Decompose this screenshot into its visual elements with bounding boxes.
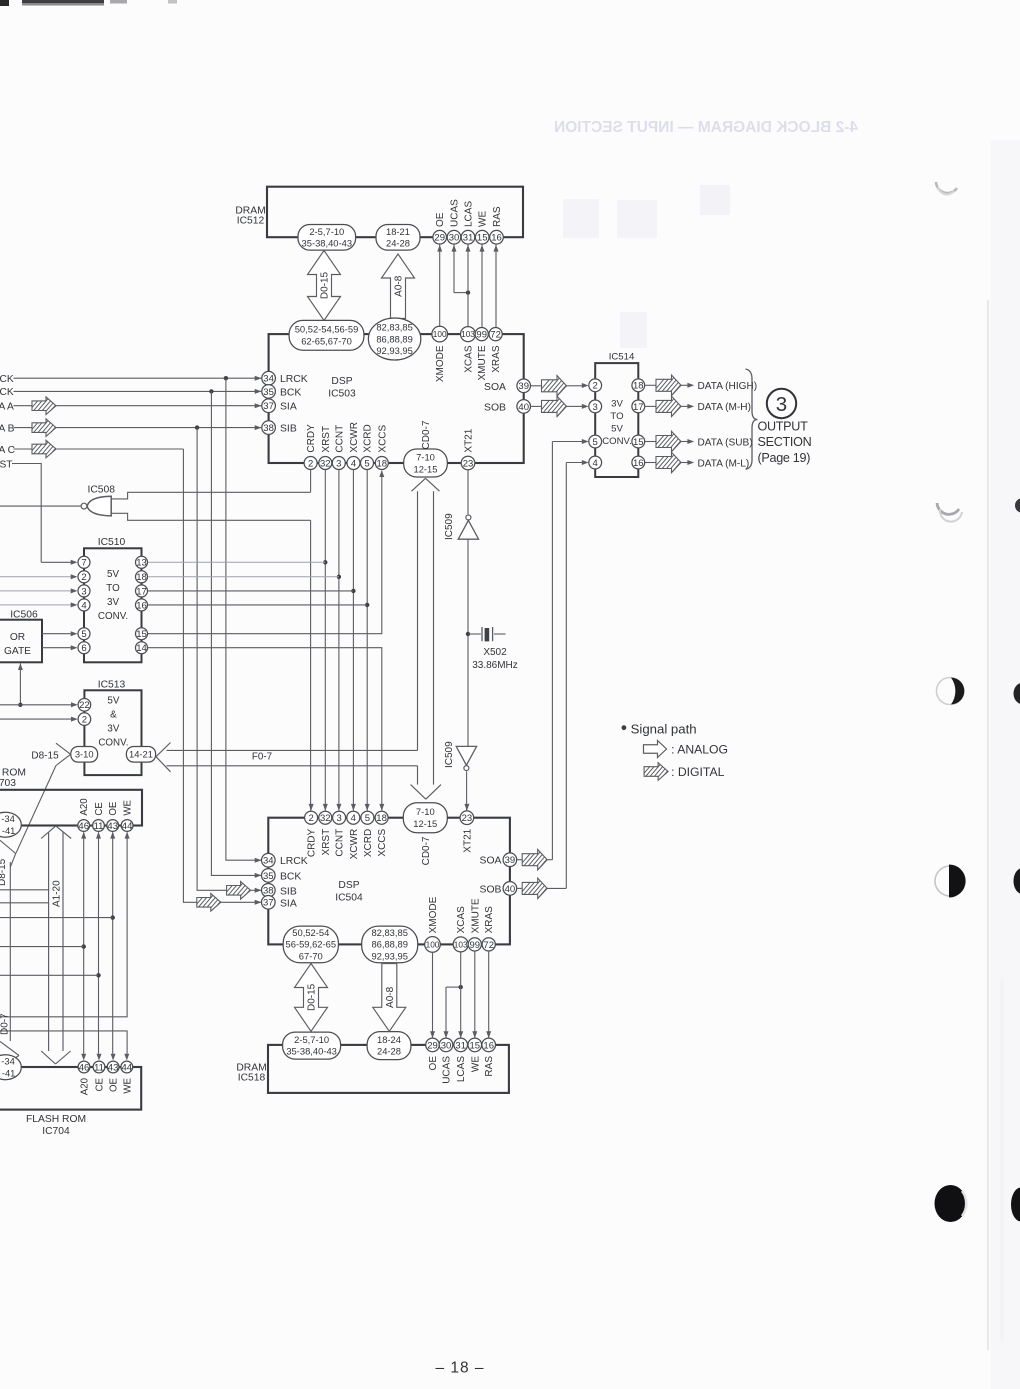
IC503 pin 23 XT21 bbox=[461, 428, 475, 470]
IC504 pin 40 SOB bbox=[480, 882, 517, 896]
svg-text:IC509: IC509 bbox=[444, 741, 455, 768]
svg-text:-34: -34 bbox=[1, 813, 15, 824]
converter IC510 bbox=[84, 537, 142, 662]
svg-text:DATA (M-L): DATA (M-L) bbox=[698, 458, 750, 469]
svg-text:OR: OR bbox=[10, 632, 25, 643]
svg-text:IC510: IC510 bbox=[98, 537, 126, 548]
IC503 pin 72 XRAS bbox=[489, 328, 502, 373]
svg-text:43: 43 bbox=[108, 1062, 119, 1073]
IC513 pins 3-10 bbox=[71, 747, 98, 763]
IC503 pin 34 LRCK bbox=[262, 371, 308, 385]
svg-text:17: 17 bbox=[633, 402, 644, 413]
FLASH ROM IC704 bbox=[0, 1067, 141, 1137]
svg-text:7-10: 7-10 bbox=[416, 806, 435, 817]
svg-text:SIA: SIA bbox=[280, 402, 297, 413]
binder hole 3 bbox=[937, 678, 965, 705]
wire DATA B bbox=[14, 419, 262, 437]
svg-text:IC513: IC513 bbox=[98, 680, 126, 691]
bus A0-8 arrow down bbox=[373, 964, 406, 1032]
svg-text:XT21: XT21 bbox=[462, 828, 473, 852]
IC510 pin 5 bbox=[78, 628, 90, 640]
IC503 pin 4 XCWR bbox=[347, 422, 360, 469]
svg-text:XCAS: XCAS bbox=[464, 345, 475, 373]
svg-text:(Page 19): (Page 19) bbox=[758, 451, 811, 465]
svg-text:A0-8: A0-8 bbox=[385, 986, 396, 1008]
svg-text:SIA: SIA bbox=[280, 898, 297, 909]
svg-text:IC509: IC509 bbox=[444, 513, 455, 540]
svg-text:14: 14 bbox=[136, 643, 147, 654]
svg-text:24-28: 24-28 bbox=[377, 1046, 401, 1057]
wire CRDY to IC504 bbox=[309, 520, 314, 810]
bus D8-15 vertical bbox=[0, 858, 10, 1041]
wire IC510 pin17 to XCWR bbox=[148, 590, 353, 592]
wire CRDY IC503 stub bbox=[310, 470, 312, 493]
converter IC513 bbox=[84, 680, 141, 776]
IC503 pins 7-10 12-15 CD0-7 bbox=[404, 420, 448, 477]
IC504 pins 7-10 12-15 CD0-7 bbox=[403, 803, 447, 866]
svg-text:3: 3 bbox=[336, 813, 341, 824]
wire IC510 pin18 to CCNT bbox=[148, 576, 339, 578]
wire OE 29-XMODE 100 bbox=[437, 244, 442, 326]
wire IC506 out to IC510 pin6 bbox=[42, 645, 78, 650]
svg-text:XCCS: XCCS bbox=[377, 828, 388, 856]
svg-text:3V: 3V bbox=[107, 597, 119, 608]
svg-text:D0-15: D0-15 bbox=[320, 271, 331, 299]
svg-text:100: 100 bbox=[426, 939, 440, 949]
IC504 pin 3 CCNT bbox=[333, 811, 346, 856]
IC503 pin 100 XMODE bbox=[432, 326, 448, 382]
svg-text:34: 34 bbox=[263, 374, 274, 385]
ghost mirrored header text bbox=[554, 119, 858, 136]
IC504 pin 99 XMUTE bbox=[468, 898, 481, 951]
svg-text:16: 16 bbox=[633, 458, 644, 469]
wire IC510 pin13 to XRST bbox=[148, 561, 325, 563]
svg-text:: DIGITAL: : DIGITAL bbox=[671, 765, 724, 779]
IC512 pin 16 RAS bbox=[490, 206, 504, 244]
svg-text:3V: 3V bbox=[107, 724, 119, 735]
IC510 pin 14 bbox=[136, 642, 148, 654]
IC503 pin 2 CRDY bbox=[304, 424, 317, 470]
svg-text:15: 15 bbox=[136, 629, 147, 640]
svg-text:UCAS: UCAS bbox=[442, 1056, 453, 1084]
IC518 pin 31 LCAS bbox=[454, 1038, 468, 1082]
IC503 pin 35 BCK bbox=[262, 385, 302, 399]
IC504 pin 103 XCAS bbox=[453, 906, 468, 952]
svg-text:SIB: SIB bbox=[280, 424, 297, 435]
IC504 pin 5 XCRD bbox=[361, 811, 374, 857]
svg-text:2-5,7-10: 2-5,7-10 bbox=[294, 1034, 329, 1045]
svg-text:CK: CK bbox=[0, 387, 14, 398]
bus D0-15 double arrow bbox=[308, 251, 341, 321]
svg-text:5V: 5V bbox=[107, 696, 119, 707]
output DATA (M-L) bbox=[645, 452, 750, 473]
svg-text:35-38,40-43: 35-38,40-43 bbox=[286, 1046, 337, 1057]
svg-text:IC703: IC703 bbox=[0, 778, 16, 789]
IC704 pin 44 WE bbox=[121, 1061, 133, 1094]
svg-text:LRCK: LRCK bbox=[280, 856, 308, 867]
svg-text:SIB: SIB bbox=[280, 886, 297, 897]
svg-text:39: 39 bbox=[505, 855, 516, 866]
svg-text:56-59,62-65: 56-59,62-65 bbox=[286, 939, 337, 950]
wire left to OE dot bbox=[0, 917, 113, 919]
wire CCNT IC503-IC504 bbox=[336, 470, 341, 811]
OR gate IC506 bbox=[0, 609, 42, 662]
svg-text:SOB: SOB bbox=[480, 884, 502, 895]
svg-text:4: 4 bbox=[351, 458, 356, 469]
svg-text:X502: X502 bbox=[483, 647, 507, 658]
IC514 pin 17 bbox=[632, 400, 645, 413]
svg-text:TO: TO bbox=[610, 411, 623, 422]
wire input IC510 pin4 bbox=[0, 602, 78, 607]
binder hole 3 edge bbox=[1014, 683, 1020, 704]
bus D8-15 arrow into IC513 bbox=[56, 743, 71, 765]
wire DATA C bbox=[14, 440, 184, 458]
scan artifact top bar bbox=[0, 0, 177, 6]
svg-text:3: 3 bbox=[81, 586, 86, 597]
binder hole 5 edge bbox=[1011, 1188, 1020, 1222]
wire BCK branch to IC504 bbox=[211, 391, 261, 878]
wire LRCK branch to IC504 bbox=[226, 378, 262, 863]
svg-text:29: 29 bbox=[427, 1040, 438, 1051]
svg-text:A B: A B bbox=[0, 423, 15, 434]
IC510 pin 6 bbox=[78, 642, 90, 654]
svg-text:40: 40 bbox=[505, 884, 516, 895]
wire SOA IC504 arrow bbox=[516, 849, 564, 870]
svg-text:IC514: IC514 bbox=[609, 352, 635, 363]
converter IC514 bbox=[595, 352, 638, 478]
svg-text:CONV.: CONV. bbox=[98, 738, 128, 749]
IC504 pin 18 XCCS bbox=[375, 811, 388, 856]
legend signal path bbox=[622, 721, 697, 736]
wire XMUTE 99-WE 15 bbox=[472, 951, 477, 1038]
svg-text:BCK: BCK bbox=[280, 871, 301, 882]
svg-text:D8-15: D8-15 bbox=[0, 858, 8, 886]
binder hole 5 bbox=[935, 1185, 967, 1222]
svg-text:D0-15: D0-15 bbox=[307, 983, 318, 1011]
svg-text:LRCK: LRCK bbox=[280, 374, 308, 385]
wire IC506 bottom input bbox=[18, 663, 23, 707]
input label DATA B bbox=[0, 423, 15, 434]
bus D8-15 arrowhead at IC704 bbox=[0, 1042, 19, 1065]
IC504 pins 82,83,85 86,88,89 92,93,95 bbox=[362, 926, 418, 963]
svg-text:14-21: 14-21 bbox=[129, 749, 153, 760]
IC703 pin 43 OE bbox=[107, 801, 119, 832]
svg-text:SECTION: SECTION bbox=[758, 435, 812, 449]
svg-text:UCAS: UCAS bbox=[450, 199, 461, 227]
svg-text:23: 23 bbox=[463, 458, 474, 469]
svg-text:RAS: RAS bbox=[492, 206, 503, 227]
svg-text:7: 7 bbox=[81, 558, 86, 569]
wire input IC510 pin2 bbox=[0, 574, 78, 579]
wire XMODE 100-OE 29 bbox=[430, 952, 435, 1038]
wire XT21 IC503 down bbox=[467, 470, 469, 515]
svg-text:29: 29 bbox=[434, 233, 445, 244]
svg-text:4: 4 bbox=[81, 600, 86, 611]
svg-text:WE: WE bbox=[122, 1077, 133, 1093]
svg-text:5: 5 bbox=[593, 437, 598, 448]
input label DATA A bbox=[0, 402, 14, 413]
IC703 pin 46 A20 bbox=[78, 798, 90, 832]
svg-text:CK: CK bbox=[0, 374, 14, 385]
IC703 pin 44 WE bbox=[121, 799, 133, 831]
input label LRCK bbox=[0, 374, 14, 385]
svg-text:67-70: 67-70 bbox=[299, 951, 323, 962]
svg-text:CCNT: CCNT bbox=[335, 829, 346, 857]
svg-text:IC506: IC506 bbox=[10, 609, 38, 620]
svg-text:DATA (SUB): DATA (SUB) bbox=[698, 437, 753, 448]
svg-text:44: 44 bbox=[122, 1062, 133, 1073]
svg-text:-41: -41 bbox=[2, 1067, 16, 1078]
svg-text:D8-15: D8-15 bbox=[31, 750, 59, 761]
wire into IC513 pin2 bbox=[0, 717, 78, 722]
svg-text:DATA (HIGH): DATA (HIGH) bbox=[698, 381, 758, 392]
svg-text:WE: WE bbox=[470, 1056, 481, 1072]
svg-text:XT21: XT21 bbox=[464, 428, 475, 452]
svg-text:4: 4 bbox=[351, 813, 356, 824]
binder hole 4 bbox=[935, 865, 966, 898]
binder hole 4 edge bbox=[1014, 868, 1020, 894]
svg-text:XCRD: XCRD bbox=[363, 424, 374, 452]
svg-text:40: 40 bbox=[518, 402, 529, 413]
svg-text:XCCS: XCCS bbox=[377, 424, 388, 452]
bus D8-15 arrowhead at IC703 bbox=[0, 840, 16, 867]
svg-text:CRDY: CRDY bbox=[306, 424, 317, 453]
IC703 pin 11 CE bbox=[93, 802, 105, 832]
svg-text:XMODE: XMODE bbox=[428, 896, 439, 933]
wire WE 44 lower bbox=[0, 1031, 129, 1061]
svg-text:72: 72 bbox=[483, 940, 494, 951]
binder hole 2 edge bbox=[1015, 499, 1020, 513]
wire BCK bbox=[14, 389, 262, 394]
wire IC508 output to CRDY lines bbox=[111, 492, 310, 520]
svg-text:IC504: IC504 bbox=[335, 893, 363, 904]
svg-text:5: 5 bbox=[365, 813, 370, 824]
IC504 pin 32 XRST bbox=[319, 811, 332, 855]
svg-text:37: 37 bbox=[263, 898, 274, 909]
svg-text:XCAS: XCAS bbox=[456, 906, 467, 934]
IC504 pin 39 SOA bbox=[480, 853, 517, 867]
IC510 pin 16 bbox=[136, 599, 148, 611]
wire DATA C branch to IC504 SIA bbox=[183, 449, 261, 911]
svg-text:18: 18 bbox=[376, 813, 387, 824]
svg-text:62-65,67-70: 62-65,67-70 bbox=[301, 336, 352, 347]
svg-text:32: 32 bbox=[320, 458, 331, 469]
svg-text:CE: CE bbox=[94, 802, 105, 816]
bus A1-20 bbox=[41, 826, 71, 1064]
svg-text:XCWR: XCWR bbox=[349, 422, 360, 453]
svg-text:32: 32 bbox=[320, 813, 331, 824]
label OUTPUT SECTION (Page 19) bbox=[758, 420, 812, 465]
svg-text:16: 16 bbox=[483, 1040, 494, 1051]
svg-text:35: 35 bbox=[263, 871, 274, 882]
svg-text:46: 46 bbox=[78, 821, 89, 832]
svg-text:16: 16 bbox=[136, 600, 147, 611]
wire OE 43-43 bbox=[110, 832, 115, 1061]
svg-text:34: 34 bbox=[263, 856, 274, 867]
svg-text:CD0-7: CD0-7 bbox=[421, 420, 432, 449]
svg-text:D0-7: D0-7 bbox=[0, 1013, 11, 1035]
svg-text:35-38,40-43: 35-38,40-43 bbox=[302, 237, 353, 248]
input label ST bbox=[0, 459, 13, 470]
svg-text:OE: OE bbox=[435, 212, 446, 227]
junction dots IC510 outputs bbox=[323, 560, 369, 607]
svg-text:SOB: SOB bbox=[484, 402, 506, 413]
page margin shading bbox=[991, 140, 1020, 1389]
IC503 pin 40 SOB bbox=[484, 400, 530, 414]
wire ST to IC510 pin7 bbox=[41, 560, 77, 565]
IC504 pin 23 XT21 bbox=[460, 811, 474, 853]
svg-text:86,88,89: 86,88,89 bbox=[371, 939, 408, 950]
svg-text:BCK: BCK bbox=[280, 387, 301, 398]
IC504 pin 34 LRCK bbox=[262, 853, 308, 867]
IC510 pin 2 bbox=[78, 571, 90, 583]
IC703 pins 31-34,38-41 bbox=[0, 812, 21, 837]
IC503 pin 18 XCCS bbox=[375, 424, 388, 469]
IC518 pin 16 RAS bbox=[482, 1038, 496, 1076]
IC504 pin 35 BCK bbox=[262, 869, 302, 883]
DRAM IC518 bbox=[236, 1045, 509, 1093]
IC518 pins 2-5,7-10 35-38,40-43 bbox=[283, 1032, 341, 1059]
bus D8-15 diagonal bbox=[16, 766, 56, 854]
svg-text:2: 2 bbox=[308, 458, 313, 469]
bus D8-15 label bbox=[31, 750, 59, 761]
ghost bleed rectangles bbox=[563, 185, 730, 348]
IC503 pin 32 XRST bbox=[319, 426, 332, 470]
IC510 pin 3 bbox=[78, 585, 90, 597]
svg-text:18: 18 bbox=[633, 381, 644, 392]
bus CD0-7 vertical bbox=[411, 478, 441, 799]
svg-text:3: 3 bbox=[776, 393, 787, 416]
IC504 pin 4 XCWR bbox=[347, 811, 360, 859]
svg-text:A1-20: A1-20 bbox=[52, 880, 63, 907]
svg-text:12-15: 12-15 bbox=[414, 463, 438, 474]
svg-text:A A: A A bbox=[0, 402, 14, 413]
svg-text:15: 15 bbox=[477, 233, 488, 244]
IC514 pin 15 bbox=[632, 435, 645, 448]
IC510 pin 7 bbox=[78, 556, 90, 568]
svg-text:6: 6 bbox=[81, 643, 86, 654]
node 3 output section bbox=[767, 389, 796, 418]
svg-text:XCWR: XCWR bbox=[349, 829, 360, 860]
svg-text:4-2 BLOCK DIAGRAM — INPUT SECT: 4-2 BLOCK DIAGRAM — INPUT SECTION bbox=[554, 119, 858, 136]
svg-text:LCAS: LCAS bbox=[456, 1056, 467, 1082]
svg-text:35: 35 bbox=[263, 387, 274, 398]
IC504 pin 37 SIA bbox=[262, 896, 297, 910]
IC510 pin 4 bbox=[78, 599, 90, 611]
wire DATA B branch to IC504 SIB bbox=[197, 428, 261, 899]
IC512 pin 15 WE bbox=[475, 211, 489, 244]
svg-text:IC518: IC518 bbox=[238, 1072, 266, 1083]
IC518 pins 18-24 24-28 bbox=[367, 1032, 411, 1060]
svg-text:: ANALOG: : ANALOG bbox=[671, 743, 728, 757]
binder hole 2 bbox=[937, 503, 962, 522]
wire inverter to IC504 XT21 bbox=[464, 771, 469, 810]
wire XCCS IC503 to IC510 pin15 bbox=[148, 470, 384, 634]
wire XRAS 72-RAS 16 bbox=[486, 951, 491, 1038]
svg-text:A20: A20 bbox=[80, 1077, 91, 1095]
IC513 pins 14-21 bbox=[126, 747, 155, 763]
svg-text:OE: OE bbox=[428, 1056, 439, 1071]
svg-text:DSP: DSP bbox=[331, 376, 352, 387]
svg-text:WE: WE bbox=[478, 211, 489, 227]
svg-text:FLASH ROM: FLASH ROM bbox=[0, 767, 26, 778]
IC704 pins 31-34,38-41 bbox=[0, 1055, 21, 1080]
svg-text:15: 15 bbox=[470, 1040, 481, 1051]
svg-text:3-10: 3-10 bbox=[75, 749, 94, 760]
svg-text:5: 5 bbox=[81, 629, 86, 640]
wire CE 11-11 bbox=[96, 832, 102, 1061]
svg-text:4: 4 bbox=[593, 458, 598, 469]
svg-text:99: 99 bbox=[470, 940, 481, 951]
input label BCK bbox=[0, 387, 14, 398]
wire left y903 bbox=[0, 902, 49, 904]
svg-text:CD0-7: CD0-7 bbox=[421, 836, 432, 865]
IC503 pin 37 SIA bbox=[262, 399, 297, 413]
wire SOA IC503 to IC514 pin2 bbox=[531, 376, 589, 397]
IC504 pin 100 XMODE bbox=[425, 896, 441, 952]
wire left to CE dot bbox=[0, 974, 99, 976]
IC510 pin 15 bbox=[136, 628, 148, 640]
svg-text:103: 103 bbox=[461, 329, 475, 339]
svg-text:30: 30 bbox=[449, 233, 460, 244]
IC510 pin 13 bbox=[136, 556, 148, 568]
svg-text:IC512: IC512 bbox=[237, 215, 265, 226]
svg-text:XRST: XRST bbox=[321, 829, 332, 856]
svg-text:SOA: SOA bbox=[484, 382, 506, 393]
wire XCAS 103-LCAS 31 bbox=[458, 952, 463, 1038]
DRAM IC512 bbox=[235, 187, 523, 238]
legend digital arrow bbox=[638, 763, 724, 781]
svg-text:103: 103 bbox=[454, 939, 468, 949]
FLASH ROM IC703 bbox=[0, 767, 142, 825]
IC512 pins 2-5,7-10 35-38,40-43 bbox=[298, 225, 356, 251]
NAND gate IC508 bbox=[81, 484, 115, 516]
svg-text:TO: TO bbox=[106, 583, 120, 594]
IC503 pin 38 SIB bbox=[262, 421, 297, 435]
wire WE 44 upper bbox=[0, 832, 130, 1017]
svg-text:17: 17 bbox=[136, 586, 147, 597]
svg-text:ST: ST bbox=[0, 459, 13, 470]
wire LRCK bbox=[14, 376, 262, 381]
svg-text:24-28: 24-28 bbox=[386, 237, 410, 248]
IC503 pin 103 XCAS bbox=[461, 327, 476, 373]
IC513 pin 2 bbox=[78, 713, 91, 726]
svg-text:3V: 3V bbox=[611, 399, 623, 410]
wire IC506 out to IC510 pin5 bbox=[42, 631, 78, 636]
svg-text:OE: OE bbox=[109, 1077, 120, 1092]
wire IC510 pin14 to IC504 XCCS bbox=[148, 648, 384, 811]
IC504 pin 38 SIB bbox=[262, 884, 297, 898]
inverter IC509 lower bbox=[444, 741, 477, 771]
svg-text:FLASH ROM: FLASH ROM bbox=[26, 1114, 86, 1125]
svg-text:100: 100 bbox=[433, 329, 447, 339]
wire SOA IC504 to IC514 pin5 bbox=[552, 439, 588, 860]
svg-text:F0-7: F0-7 bbox=[252, 751, 272, 762]
svg-text:2: 2 bbox=[82, 714, 87, 725]
IC503 pin 39 SOA bbox=[484, 379, 530, 393]
crystal X502 bbox=[468, 627, 518, 671]
svg-text:38: 38 bbox=[263, 423, 274, 434]
svg-text:16: 16 bbox=[491, 233, 502, 244]
svg-text:31: 31 bbox=[463, 233, 474, 244]
svg-text:XMUTE: XMUTE bbox=[477, 345, 488, 380]
output DATA (M-H) bbox=[645, 396, 751, 417]
svg-text:CRDY: CRDY bbox=[307, 828, 318, 857]
IC504 pin 72 XRAS bbox=[482, 906, 495, 951]
svg-text:XMUTE: XMUTE bbox=[470, 898, 481, 933]
svg-text:XMODE: XMODE bbox=[435, 345, 446, 382]
svg-text:5: 5 bbox=[364, 458, 369, 469]
